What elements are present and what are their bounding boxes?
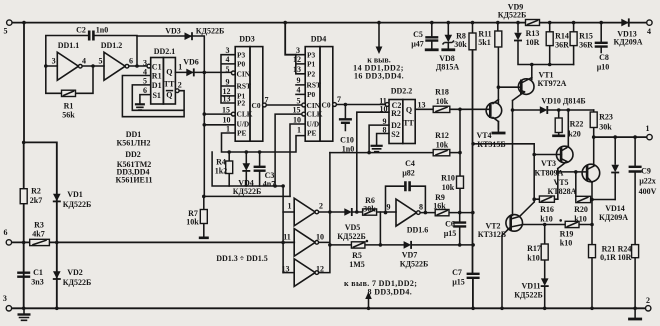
svg-text:10k: 10k	[436, 97, 449, 106]
svg-text:C1: C1	[33, 268, 43, 277]
svg-text:КД522Б: КД522Б	[514, 291, 543, 300]
svg-text:16k: 16k	[433, 202, 446, 211]
svg-text:КТ809А: КТ809А	[535, 169, 564, 178]
svg-text:3: 3	[52, 57, 56, 66]
svg-text:400V: 400V	[639, 187, 657, 196]
svg-text:DD1.3 ÷ DD1.5: DD1.3 ÷ DD1.5	[216, 254, 268, 263]
svg-text:VD6: VD6	[183, 58, 199, 67]
svg-text:КД522Б: КД522Б	[63, 278, 92, 287]
svg-text:К561ЛН2: К561ЛН2	[117, 139, 151, 148]
svg-text:CLK: CLK	[307, 110, 323, 119]
svg-text:5: 5	[143, 77, 147, 86]
svg-text:DD1: DD1	[126, 130, 142, 139]
svg-text:10: 10	[316, 233, 324, 242]
svg-text:P3: P3	[307, 50, 316, 59]
svg-text:R1: R1	[152, 72, 162, 81]
svg-text:1: 1	[646, 124, 650, 133]
svg-text:C6: C6	[445, 220, 455, 229]
svg-text:36R: 36R	[555, 41, 569, 50]
svg-text:k10: k10	[574, 215, 586, 224]
svg-text:R4: R4	[216, 158, 226, 167]
svg-text:1: 1	[226, 124, 230, 133]
svg-text:11: 11	[283, 233, 291, 242]
svg-text:КД522Б: КД522Б	[337, 232, 366, 241]
svg-text:R20: R20	[574, 205, 588, 214]
svg-text:R10: R10	[441, 174, 455, 183]
svg-text:P0: P0	[307, 90, 316, 99]
svg-text:10: 10	[293, 115, 301, 124]
svg-text:Q: Q	[166, 67, 172, 76]
svg-text:8 DD3,DD4.: 8 DD3,DD4.	[368, 288, 413, 297]
svg-text:VD8: VD8	[439, 54, 455, 63]
svg-text:VT5: VT5	[553, 178, 568, 187]
svg-text:D2: D2	[391, 121, 401, 130]
svg-text:S2: S2	[391, 130, 399, 139]
svg-text:TT: TT	[164, 79, 175, 88]
svg-text:10k: 10k	[186, 218, 199, 227]
svg-text:12: 12	[293, 55, 301, 64]
svg-text:4: 4	[143, 68, 147, 77]
svg-text:1: 1	[297, 125, 301, 134]
svg-text:КД522Б: КД522Б	[498, 11, 527, 20]
svg-text:56k: 56k	[62, 111, 75, 120]
svg-text:5: 5	[4, 27, 8, 36]
svg-text:VD11: VD11	[521, 282, 540, 291]
svg-text:R15: R15	[579, 32, 593, 41]
svg-text:3n3: 3n3	[31, 278, 43, 287]
svg-text:k10: k10	[560, 239, 572, 248]
svg-text:13: 13	[282, 265, 290, 274]
svg-text:1: 1	[178, 63, 182, 72]
svg-text:R18: R18	[435, 88, 449, 97]
svg-text:9: 9	[226, 77, 230, 86]
svg-text:2k7: 2k7	[30, 196, 42, 205]
svg-text:3: 3	[296, 46, 300, 55]
svg-text:КД209А: КД209А	[613, 38, 642, 47]
svg-text:36R: 36R	[579, 41, 593, 50]
svg-text:10k: 10k	[442, 183, 455, 192]
svg-text:R22: R22	[570, 120, 584, 129]
svg-text:1n0: 1n0	[96, 26, 108, 35]
svg-text:VD14: VD14	[605, 204, 625, 213]
svg-text:3: 3	[3, 294, 7, 303]
svg-text:C10: C10	[340, 136, 354, 145]
svg-text:DD1.1: DD1.1	[58, 41, 80, 50]
svg-text:КД209А: КД209А	[599, 213, 628, 222]
svg-text:R17: R17	[527, 244, 541, 253]
svg-text:10: 10	[380, 105, 388, 114]
svg-text:КТ315Б: КТ315Б	[477, 140, 505, 149]
svg-text:5: 5	[297, 97, 301, 106]
svg-text:15: 15	[222, 105, 230, 114]
svg-text:10R: 10R	[526, 38, 540, 47]
svg-text:RST: RST	[237, 82, 251, 91]
svg-text:R16: R16	[540, 205, 554, 214]
svg-text:7: 7	[337, 95, 341, 104]
svg-text:CIN: CIN	[237, 69, 251, 78]
svg-text:R19: R19	[560, 230, 574, 239]
svg-text:U/D: U/D	[307, 120, 320, 129]
svg-text:PE: PE	[237, 129, 247, 138]
svg-text:R5: R5	[352, 251, 362, 260]
svg-text:µ15: µ15	[452, 278, 465, 287]
svg-text:2: 2	[646, 296, 650, 305]
svg-text:2: 2	[319, 202, 323, 211]
svg-text:КТ312Б: КТ312Б	[478, 230, 506, 239]
svg-text:30k: 30k	[363, 205, 376, 214]
svg-text:k10: k10	[540, 215, 552, 224]
svg-text:P3: P3	[237, 50, 246, 59]
svg-text:R14: R14	[555, 32, 569, 41]
svg-text:R12: R12	[435, 131, 449, 140]
svg-text:КД522Б: КД522Б	[196, 27, 225, 36]
svg-text:1M5: 1M5	[349, 260, 365, 269]
svg-text:К561ИЕ11: К561ИЕ11	[116, 176, 153, 185]
svg-text:VD10 Д814Б: VD10 Д814Б	[541, 97, 585, 106]
svg-text:5: 5	[226, 65, 230, 74]
svg-text:C2: C2	[76, 26, 86, 35]
svg-text:VT3: VT3	[541, 159, 556, 168]
svg-text:RST: RST	[307, 81, 321, 90]
svg-text:15: 15	[293, 105, 301, 114]
svg-text:R3: R3	[34, 221, 44, 230]
svg-text:2: 2	[178, 81, 182, 90]
svg-text:CIN: CIN	[307, 101, 321, 110]
svg-text:КТ972А: КТ972А	[538, 79, 567, 88]
svg-text:5: 5	[99, 57, 103, 66]
svg-text:DD2.1: DD2.1	[154, 47, 176, 56]
svg-text:R2: R2	[31, 187, 41, 196]
svg-text:13: 13	[418, 101, 426, 110]
svg-text:10R: 10R	[618, 253, 632, 262]
svg-text:VD1: VD1	[67, 190, 83, 199]
svg-text:P0: P0	[237, 60, 246, 69]
svg-text:µ15: µ15	[444, 229, 457, 238]
svg-text:P2: P2	[237, 99, 246, 108]
svg-text:CLK: CLK	[237, 110, 253, 119]
svg-text:DD2.2: DD2.2	[391, 87, 413, 96]
svg-text:3: 3	[226, 46, 230, 55]
svg-text:4: 4	[297, 86, 301, 95]
svg-text:C0: C0	[252, 101, 261, 110]
svg-text:µ47: µ47	[411, 40, 424, 49]
svg-text:КТ828А: КТ828А	[548, 187, 577, 196]
svg-text:R23: R23	[599, 113, 613, 122]
svg-text:4n7: 4n7	[263, 180, 275, 189]
svg-text:6: 6	[143, 86, 147, 95]
svg-text:DD4: DD4	[311, 35, 327, 44]
svg-text:30k: 30k	[599, 123, 612, 132]
svg-text:R1: R1	[64, 102, 74, 111]
svg-text:Q: Q	[406, 106, 412, 115]
svg-text:КД522Б: КД522Б	[233, 187, 262, 196]
svg-text:DD1.2: DD1.2	[101, 41, 123, 50]
svg-text:PE: PE	[307, 129, 317, 138]
svg-text:VD5: VD5	[345, 223, 361, 232]
svg-text:k20: k20	[568, 130, 580, 139]
svg-text:C7: C7	[452, 268, 462, 277]
svg-text:C5: C5	[413, 30, 423, 39]
svg-text:1n0: 1n0	[342, 145, 354, 154]
svg-text:Д815А: Д815А	[436, 63, 460, 72]
svg-text:U/D: U/D	[237, 120, 250, 129]
svg-text:9: 9	[297, 76, 301, 85]
svg-text:8: 8	[419, 203, 423, 212]
svg-text:КД522Б: КД522Б	[63, 200, 92, 209]
svg-text:D1: D1	[152, 81, 162, 90]
svg-text:13: 13	[223, 95, 231, 104]
svg-text:DD3: DD3	[239, 35, 255, 44]
svg-text:4k7: 4k7	[32, 230, 44, 239]
svg-text:16 DD3,DD4.: 16 DD3,DD4.	[354, 72, 404, 81]
svg-text:C9: C9	[641, 167, 651, 176]
svg-text:VD2: VD2	[67, 268, 83, 277]
svg-text:VT4: VT4	[476, 131, 491, 140]
svg-text:C4: C4	[405, 159, 415, 168]
svg-text:TT: TT	[403, 119, 414, 128]
svg-text:Q: Q	[166, 90, 172, 99]
svg-text:C0: C0	[322, 100, 331, 109]
svg-text:R13: R13	[526, 29, 540, 38]
svg-text:5k1: 5k1	[478, 38, 490, 47]
svg-text:4: 4	[647, 27, 651, 36]
svg-text:10: 10	[223, 115, 231, 124]
svg-text:12: 12	[316, 265, 324, 274]
svg-text:6: 6	[129, 57, 133, 66]
svg-text:0,1R: 0,1R	[600, 253, 616, 262]
svg-text:6: 6	[4, 228, 8, 237]
svg-text:µ10: µ10	[597, 63, 610, 72]
svg-text:13: 13	[293, 65, 301, 74]
svg-text:4: 4	[82, 57, 86, 66]
svg-text:DD2: DD2	[125, 150, 141, 159]
svg-text:µ82: µ82	[402, 169, 415, 178]
svg-text:КД522Б: КД522Б	[400, 260, 429, 269]
svg-text:3: 3	[143, 59, 147, 68]
svg-text:7: 7	[265, 96, 269, 105]
svg-text:1: 1	[288, 202, 292, 211]
svg-text:VD3: VD3	[165, 27, 181, 36]
svg-text:9: 9	[387, 203, 391, 212]
svg-text:µ22x: µ22x	[639, 177, 656, 186]
svg-text:DD1.6: DD1.6	[407, 226, 429, 235]
svg-text:30k: 30k	[454, 40, 467, 49]
svg-text:P2: P2	[307, 69, 316, 78]
svg-text:C8: C8	[599, 53, 609, 62]
svg-text:R2: R2	[391, 109, 401, 118]
svg-text:4: 4	[226, 55, 230, 64]
svg-text:C1: C1	[152, 62, 162, 71]
svg-text:10k: 10k	[436, 141, 449, 150]
svg-text:8: 8	[383, 126, 387, 135]
svg-text:1k2: 1k2	[215, 167, 227, 176]
svg-text:S1: S1	[152, 91, 160, 100]
svg-text:k10: k10	[527, 254, 539, 263]
svg-text:VD7: VD7	[402, 251, 418, 260]
svg-text:P1: P1	[307, 60, 316, 69]
